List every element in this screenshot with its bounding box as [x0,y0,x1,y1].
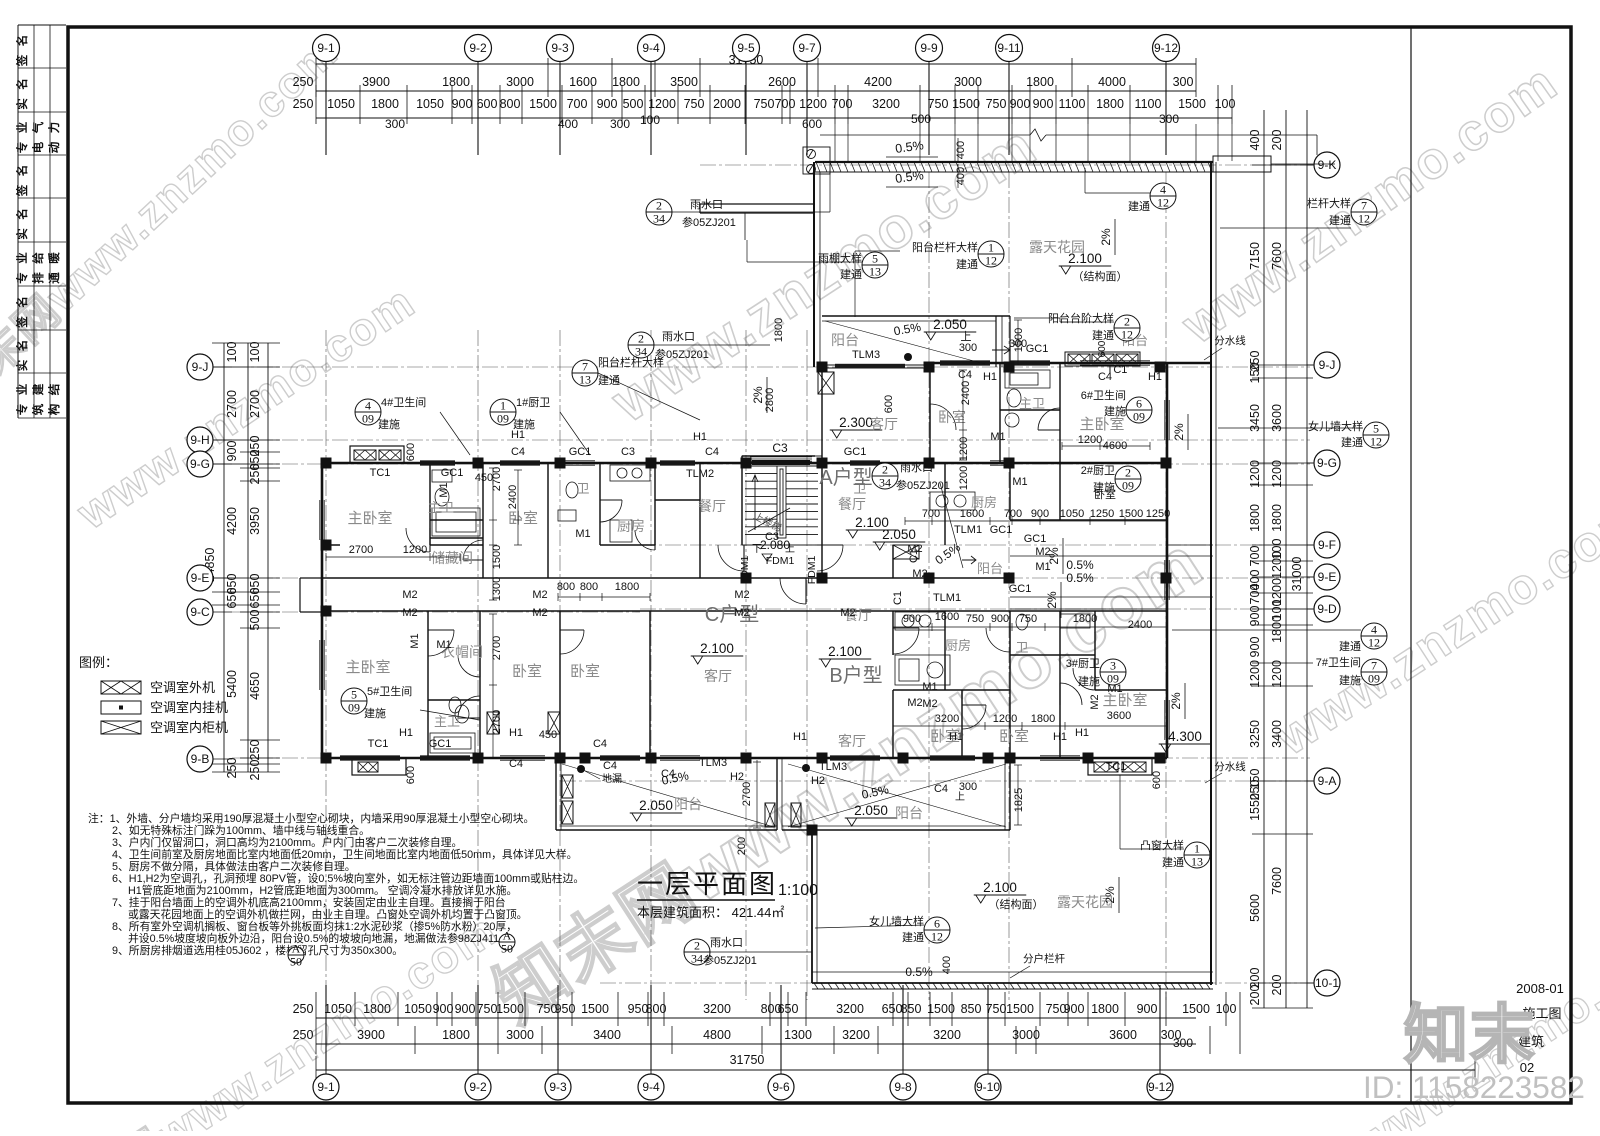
svg-text:200: 200 [736,837,748,855]
svg-text:1200: 1200 [1248,460,1262,488]
svg-text:2%: 2% [1169,692,1183,710]
svg-text:M2: M2 [532,607,547,619]
svg-text:厨房: 厨房 [617,518,645,534]
svg-text:5400: 5400 [225,670,239,698]
svg-text:M2: M2 [907,697,922,709]
svg-text:3400: 3400 [1270,720,1284,748]
svg-text:2%: 2% [1099,228,1113,246]
svg-text:力: 力 [47,122,61,134]
svg-text:TC1: TC1 [1106,761,1127,773]
kitchen fixtures upper [610,465,650,481]
roof reference line with break [820,134,1030,136]
svg-text:FDM1: FDM1 [806,556,818,585]
svg-text:300: 300 [1173,75,1194,89]
title block divider vertical line [1410,27,1412,1103]
A-unit kitchen counter [930,492,975,510]
svg-text:3000: 3000 [506,1028,534,1042]
svg-text:女儿墙大样: 女儿墙大样 [1308,419,1363,433]
svg-text:1: 1 [1194,842,1200,856]
svg-text:TLM3: TLM3 [699,757,727,769]
level 2.100 B dining [819,644,872,667]
svg-text:2.050: 2.050 [882,527,916,542]
svg-text:3600: 3600 [1109,1028,1137,1042]
bottom dimension row1 values [293,1002,1237,1016]
svg-text:100: 100 [248,342,262,363]
svg-text:1050: 1050 [404,1002,432,1016]
svg-text:卫: 卫 [1015,640,1028,655]
svg-text:2400: 2400 [1128,619,1152,631]
svg-text:8、所有室外空调机搁板、窗台板等外挑板面均抹1:2水泥砂浆（: 8、所有室外空调机搁板、窗台板等外挑板面均抹1:2水泥砂浆（掺5%防水粉）20厚… [112,919,517,933]
svg-text:M2: M2 [840,607,855,619]
svg-text:给: 给 [31,252,45,264]
svg-text:300: 300 [1173,1036,1193,1050]
windows right wall [1164,400,1166,440]
A-unit balcony door TLM3 sill line [822,364,930,366]
AC outdoor unit symbols in plan [818,372,834,394]
balcony A slope diagonal [825,321,985,364]
svg-text:250: 250 [225,758,239,779]
svg-text:600: 600 [1097,340,1108,357]
right dimension col2 values [1270,130,1284,996]
svg-text:阳台: 阳台 [977,561,1003,576]
lower balcony C-unit outline [555,758,557,830]
svg-text:3950: 3950 [248,507,262,535]
svg-text:M1: M1 [438,482,450,497]
callout 1/09 bath1 [490,399,516,426]
svg-text:2%: 2% [1103,886,1117,904]
note inline callout A/50 item8 [499,929,515,956]
svg-text:100: 100 [225,342,239,363]
callout 4/12 right mid [1361,623,1387,650]
svg-text:凸窗大样: 凸窗大样 [1140,838,1184,852]
svg-text:建: 建 [31,383,45,395]
svg-text:M2: M2 [912,568,927,580]
svg-text:地漏: 地漏 [602,772,622,785]
svg-text:M1: M1 [409,633,421,648]
upper terrace parapet left wall [813,162,815,367]
svg-text:09: 09 [1133,410,1145,424]
svg-text:1600: 1600 [960,508,984,520]
svg-text:4、卫生间前室及厨房地面比室内地面低20mm，卫生间地面比室: 4、卫生间前室及厨房地面比室内地面低20mm，卫生间地面比室内地面低50mm，具… [112,847,577,861]
svg-text:0.5%: 0.5% [905,965,933,979]
svg-text:2.100: 2.100 [700,641,734,656]
TC1 bay window box on 9-J wall [1065,352,1140,366]
svg-text:4: 4 [365,399,371,413]
svg-text:建通: 建通 [598,373,620,387]
svg-text:300: 300 [385,117,405,131]
svg-text:电: 电 [31,141,45,153]
svg-text:建通: 建通 [1128,199,1150,213]
svg-text:1800: 1800 [773,318,785,342]
svg-text:900: 900 [225,441,239,462]
svg-text:3200: 3200 [933,1028,961,1042]
bottom dimension row2 values [293,1028,1182,1042]
svg-text:1500: 1500 [1006,1002,1034,1016]
svg-text:GC1: GC1 [844,446,867,458]
svg-text:2.050: 2.050 [639,798,673,813]
svg-text:900: 900 [1248,637,1262,658]
svg-text:6: 6 [934,917,940,931]
svg-text:9-J: 9-J [1319,358,1336,372]
svg-text:09: 09 [362,412,374,426]
svg-text:9、所厨房排烟道选用桂05J602 ，楼板留孔尺寸: 9、所厨房排烟道选用桂05J602 ，楼板留孔尺寸为350x300。 [112,943,403,957]
svg-text:建通: 建通 [956,257,978,271]
svg-text:5: 5 [351,688,357,702]
svg-text:建施: 建施 [1078,674,1100,688]
svg-text:主卧室: 主卧室 [1079,416,1124,433]
svg-text:空调室外机: 空调室外机 [150,680,215,695]
svg-text:阳台: 阳台 [895,805,923,821]
svg-text:9-5: 9-5 [737,41,755,55]
callout 2/34 rainwater mid [628,332,654,359]
callout 7/12 right rail [1351,199,1377,226]
left dimension ticks [212,343,280,772]
svg-text:400: 400 [1248,130,1262,151]
svg-text:储藏间: 储藏间 [431,550,473,566]
svg-text:9-2: 9-2 [469,41,487,55]
svg-text:卫: 卫 [576,481,589,496]
svg-text:A: A [292,942,301,956]
svg-text:1800: 1800 [1096,97,1124,111]
svg-text:名: 名 [15,35,29,47]
svg-text:1500: 1500 [581,1002,609,1016]
interior dimension lines with ticks [326,320,1167,825]
top-left bay window TC1 [350,446,404,463]
svg-text:9-9: 9-9 [920,41,938,55]
bottom axis bubbles [325,1070,327,1074]
balcony A top wall [822,315,1010,317]
svg-text:900: 900 [1033,97,1054,111]
svg-text:4#卫生间: 4#卫生间 [381,395,426,409]
staircase [742,456,822,545]
svg-text:900: 900 [991,613,1009,625]
svg-text:700: 700 [1248,584,1262,605]
svg-text:1800: 1800 [442,75,470,89]
svg-text:700: 700 [1248,546,1262,567]
svg-text:建通: 建通 [840,267,862,281]
svg-text:900: 900 [1064,1002,1085,1016]
level 2.300 living room A [830,415,883,438]
svg-text:09: 09 [348,701,360,715]
mid band bottom exterior wall [322,757,1167,760]
svg-text:12: 12 [1368,636,1380,650]
svg-text:B户型: B户型 [829,664,882,687]
svg-text:9-F: 9-F [1318,538,1336,552]
svg-text:2400: 2400 [507,485,519,509]
svg-text:9-G: 9-G [1317,456,1337,470]
svg-text:6、H1,H2为空调孔，孔洞预埋 80PV管，设0.5%: 6、H1,H2为空调孔，孔洞预埋 80PV管，设0.5%坡向室外，如无标注管边距… [112,871,584,885]
svg-text:500: 500 [623,97,644,111]
level 2.050 C balcony [630,798,683,821]
callout 7/13 balcony rail left [572,360,598,387]
svg-text:600: 600 [477,97,498,111]
svg-text:9-3: 9-3 [551,41,569,55]
svg-text:09: 09 [1122,479,1134,493]
bathroom fixtures upper-left [432,470,452,482]
svg-text:1200: 1200 [958,437,970,461]
svg-text:2#厨卫: 2#厨卫 [1081,464,1115,477]
svg-text:1800: 1800 [1091,1002,1119,1016]
svg-text:H1: H1 [509,727,523,739]
callout 7/09 bath7 right [1361,659,1387,686]
svg-text:2700: 2700 [741,782,753,806]
svg-text:2.300: 2.300 [839,415,873,430]
svg-text:1100: 1100 [1135,97,1162,111]
svg-text:1250: 1250 [1090,508,1114,520]
svg-text:250: 250 [293,75,314,89]
svg-text:4200: 4200 [225,507,239,535]
level 2.100 lower terrace [974,880,1027,903]
svg-text:注：1、外墙、分户墙均采用190厚混凝土小型空心砌块，内墙采: 注：1、外墙、分户墙均采用190厚混凝土小型空心砌块，内墙采用90厚混凝土小型空… [88,811,534,825]
mid band right exterior wall [1166,363,1169,758]
svg-text:1800: 1800 [612,75,640,89]
svg-text:09: 09 [1107,672,1119,686]
svg-text:2: 2 [638,332,644,346]
lower terrace bottom parapet wall [812,971,1213,973]
svg-text:M2: M2 [1089,694,1101,709]
svg-text:7: 7 [582,360,588,374]
svg-text:H1: H1 [1148,371,1162,383]
svg-text:1100: 1100 [1059,97,1086,111]
svg-text:M2: M2 [907,543,922,555]
svg-text:300: 300 [1159,112,1179,126]
svg-text:12: 12 [1370,435,1382,449]
vertical axis dash-dot grid lines [326,172,1166,1000]
svg-text:650: 650 [882,1002,903,1016]
svg-text:4650: 4650 [248,672,262,700]
svg-text:600: 600 [405,766,417,784]
svg-text:建施: 建施 [1339,673,1361,687]
interior partition walls lower half [428,611,1167,758]
svg-text:1800: 1800 [1270,504,1284,532]
svg-text:2000: 2000 [713,97,741,111]
level 2.050 A entry [873,527,926,550]
svg-text:2: 2 [656,199,662,213]
svg-text:3、户内门仅留洞口，洞口高均为2100mm。户内门由客户二次: 3、户内门仅留洞口，洞口高均为2100mm。户内门由客户二次装修自理。 [112,835,462,849]
svg-text:1800: 1800 [1031,713,1055,725]
svg-text:卧室: 卧室 [570,663,600,680]
parapet end piece at 9-K [1213,156,1271,172]
svg-text:专: 专 [15,272,29,284]
svg-text:业: 业 [15,121,29,133]
B-unit kitchen fixtures [895,612,945,630]
lower-left bath fixtures [449,697,461,713]
svg-text:9-H: 9-H [190,433,209,447]
svg-text:9-1: 9-1 [317,1080,335,1094]
svg-text:12: 12 [931,930,943,944]
svg-text:2、如无特殊标注门跺为100mm、墙中线与轴线重合。: 2、如无特殊标注门跺为100mm、墙中线与轴线重合。 [112,823,370,837]
svg-text:H2: H2 [811,775,825,787]
svg-text:建施: 建施 [1093,480,1115,494]
svg-text:GC1: GC1 [1024,533,1047,545]
svg-text:9-8: 9-8 [894,1080,912,1094]
svg-text:250: 250 [293,1002,314,1016]
svg-text:厨房: 厨房 [945,638,971,653]
svg-text:卧室: 卧室 [999,728,1029,745]
svg-text:实: 实 [15,359,29,371]
bathroom fixtures mid [566,482,578,498]
svg-text:1300: 1300 [784,1028,812,1042]
svg-text:09: 09 [1368,672,1380,686]
svg-text:本层建筑面积： 421.44㎡: 本层建筑面积： 421.44㎡ [637,905,784,920]
svg-text:或露天花园地面上的空调外机做拦网，由业主自理。凸窗处空调外机: 或露天花园地面上的空调外机做拦网，由业主自理。凸窗处空调外机均置于凸窗顶。 [128,907,527,921]
svg-text:100: 100 [640,113,660,127]
svg-text:300: 300 [959,342,977,354]
svg-text:上: 上 [955,791,965,803]
svg-text:H1: H1 [399,727,413,739]
left wall entry niche [300,577,322,579]
svg-text:5、厨房不做分隔，具体做法由客户二次装修自理。: 5、厨房不做分隔，具体做法由客户二次装修自理。 [112,859,356,873]
level 2.100 C dining [691,641,744,664]
right dimension vertical lines [1263,110,1265,1008]
svg-text:C4: C4 [958,369,972,381]
svg-text:1:100: 1:100 [778,882,818,899]
balcony A step column [995,316,997,367]
level 2.100 dining A [846,515,899,538]
svg-text:TC1: TC1 [1107,364,1128,376]
callout 3/09 kitchen3 [1100,659,1126,686]
svg-text:一层平面图: 一层平面图 [637,869,777,899]
svg-text:雨水口: 雨水口 [690,198,723,211]
svg-text:400: 400 [955,167,967,185]
svg-text:34: 34 [879,476,891,490]
svg-text:暖: 暖 [47,252,61,264]
svg-text:200: 200 [1270,975,1284,996]
svg-text:M2: M2 [402,589,417,601]
callout 6/12 parapet bottom [924,917,950,944]
svg-text:800: 800 [580,581,598,593]
svg-text:1200: 1200 [1270,460,1284,488]
svg-text:2: 2 [1125,466,1131,480]
svg-text:9-G: 9-G [190,457,210,471]
svg-text:TC1: TC1 [368,738,389,750]
svg-text:建通: 建通 [1329,213,1351,227]
svg-text:10-1: 10-1 [1315,976,1339,990]
callout 5/09 bath5 [341,688,367,715]
svg-text:750: 750 [986,1002,1007,1016]
legend item AC indoor wall unit [101,701,141,714]
callout 1/12 balcony rail [978,241,1004,268]
svg-text:400: 400 [941,956,953,974]
svg-text:动: 动 [47,141,61,153]
A-unit rooms top exterior wall [930,362,1211,365]
svg-text:200: 200 [1248,985,1262,1006]
svg-text:（结构面）: （结构面） [989,897,1044,911]
svg-text:7、挂于阳台墙面上的空调外机底高2100mm，安装固定由业主: 7、挂于阳台墙面上的空调外机底高2100mm，安装固定由业主自理。直接搁于阳台 [112,895,506,909]
svg-text:1500: 1500 [529,97,557,111]
balcony depth dim 2700 [756,760,758,828]
svg-text:业: 业 [15,383,29,395]
svg-text:H1: H1 [1053,731,1067,743]
windows on A-unit top wall [940,360,990,362]
callout 2/34 rainwater bottom [684,939,710,966]
svg-text:专: 专 [15,142,29,154]
svg-text:9-3: 9-3 [549,1080,567,1094]
svg-text:3200: 3200 [935,713,959,725]
svg-text:3200: 3200 [836,1002,864,1016]
svg-text:4200: 4200 [864,75,892,89]
svg-text:1200: 1200 [403,544,427,556]
svg-text:M1: M1 [990,431,1005,443]
svg-text:C4: C4 [661,768,675,780]
svg-text:1800: 1800 [363,1002,391,1016]
bottom bay window TC1 right [1088,758,1152,775]
structural column squares [321,362,1172,836]
svg-text:雨水口: 雨水口 [710,936,743,949]
svg-text:1: 1 [500,399,506,413]
svg-text:1600: 1600 [569,75,597,89]
svg-text:C1: C1 [892,591,904,605]
svg-text:空调室内挂机: 空调室内挂机 [150,700,228,715]
right axis bubbles [1307,164,1314,166]
svg-text:TLM2: TLM2 [686,468,714,480]
callout 5/12 parapet right [1363,422,1389,449]
svg-text:阳台栏杆大样: 阳台栏杆大样 [912,240,978,254]
svg-text:建通: 建通 [902,930,924,944]
svg-text:H1管底距地面为2100mm，H2管底距地面为300mm。: H1管底距地面为2100mm，H2管底距地面为300mm。 空调冷凝水排放详见水… [128,883,517,897]
svg-text:H1: H1 [793,731,807,743]
note inline callout A/50 item9 [288,942,304,969]
svg-text:200: 200 [1270,130,1284,151]
svg-text:1200: 1200 [958,466,970,490]
svg-text:600: 600 [1151,771,1163,789]
svg-text:GC1: GC1 [1026,343,1049,355]
svg-text:ID: 1158223582: ID: 1158223582 [1363,1069,1585,1105]
svg-text:900: 900 [1137,1002,1158,1016]
svg-text:800: 800 [646,1002,667,1016]
svg-text:2%: 2% [751,386,765,404]
svg-text:签: 签 [15,54,29,67]
svg-text:H1: H1 [1075,727,1089,739]
windows on mid top wall [420,460,455,462]
svg-text:M2: M2 [734,589,749,601]
svg-text:300: 300 [610,117,630,131]
top dimension row2 values [293,97,1236,111]
svg-text:600: 600 [802,117,822,131]
svg-text:H2: H2 [730,771,744,783]
svg-text:2700: 2700 [349,544,373,556]
svg-text:主卫: 主卫 [1019,396,1045,411]
svg-text:750: 750 [684,97,705,111]
svg-text:600: 600 [405,443,417,461]
window sill dark bands [340,361,1050,761]
svg-text:A: A [503,929,512,943]
svg-text:34: 34 [653,212,665,226]
svg-text:750: 750 [1019,613,1037,625]
svg-text:M1: M1 [1012,476,1027,488]
svg-text:7150: 7150 [1248,242,1262,270]
svg-text:卧室: 卧室 [508,510,538,527]
svg-text:建施: 建施 [378,417,400,431]
terrace right parapet wall [1210,162,1212,985]
svg-text:1500: 1500 [952,97,980,111]
svg-text:900: 900 [903,613,921,625]
svg-text:建施: 建施 [1104,404,1126,418]
bottom-left bay window TC1 [352,758,406,775]
B-unit balcony slope diagonals and drain [788,764,1006,827]
svg-text:参05ZJ201: 参05ZJ201 [682,215,736,229]
svg-text:1200: 1200 [1270,551,1284,579]
AC cabinet symbol near stairs [893,545,919,559]
svg-text:1800: 1800 [371,97,399,111]
svg-text:1200: 1200 [799,97,827,111]
callout 4/12 right top [1150,183,1176,210]
svg-text:1500: 1500 [927,1002,955,1016]
svg-text:3200: 3200 [872,97,900,111]
svg-text:34: 34 [691,952,703,966]
svg-text:4.300: 4.300 [1168,729,1202,744]
svg-text:C户型: C户型 [705,603,759,626]
